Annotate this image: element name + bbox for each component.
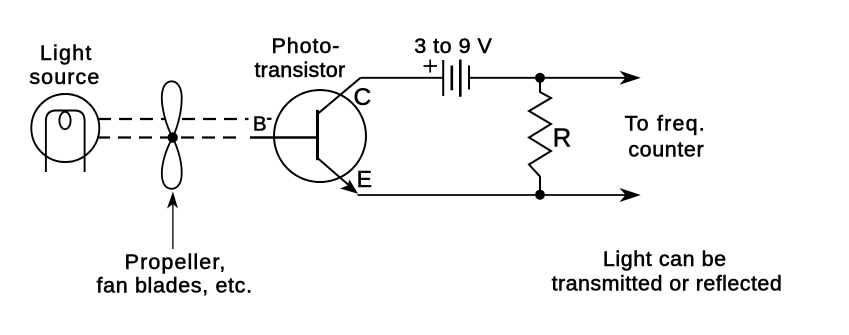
- label "Light can be transmitted or reflected": [552, 247, 783, 296]
- phototransistor Q1 base bar: [316, 110, 319, 160]
- svg-text:B: B: [253, 113, 267, 136]
- svg-text:Photo-: Photo-: [272, 34, 341, 58]
- svg-text:Light can be: Light can be: [603, 247, 727, 271]
- wire collector to battery: [361, 77, 444, 79]
- svg-text:C: C: [353, 84, 371, 111]
- svg-text:To freq.: To freq.: [625, 112, 706, 136]
- svg-text:3 to 9 V: 3 to 9 V: [414, 34, 492, 58]
- svg-text:fan blades, etc.: fan blades, etc.: [96, 274, 252, 298]
- pointer arrowhead to propeller: [167, 192, 178, 209]
- label "Photo-transistor": [254, 34, 345, 82]
- phototransistor Q1 emitter arrowhead: [340, 180, 358, 194]
- lamp DS1 filament loop: [59, 112, 70, 129]
- battery plus sign: [424, 60, 438, 73]
- battery BT1 plate short 1: [450, 66, 453, 91]
- phototransistor Q1 circle: [274, 90, 366, 182]
- output arrowhead top: [620, 71, 641, 85]
- svg-text:E: E: [357, 166, 372, 192]
- output arrowhead bottom: [620, 188, 641, 202]
- phototransistor Q1 base lead wire: [250, 136, 318, 138]
- wire emitter to output: [358, 194, 629, 196]
- light beam upper dashed ray: [98, 118, 249, 120]
- phototransistor Q1 emitter lead: [318, 158, 352, 188]
- svg-text:counter: counter: [628, 138, 704, 162]
- pointer arrow shaft: [172, 203, 174, 249]
- phototransistor Q1 collector lead: [318, 78, 361, 114]
- svg-text:Light: Light: [40, 41, 93, 65]
- battery BT1 plate long 1: [442, 60, 444, 96]
- propeller bottom blade: [162, 138, 182, 189]
- resistor R zigzag: [529, 78, 551, 195]
- svg-text:source: source: [29, 65, 100, 89]
- wire battery to output: [469, 77, 628, 79]
- label "Light source": [29, 41, 100, 89]
- junction node top: [535, 73, 545, 83]
- lamp DS1 bulb outline: [46, 111, 85, 173]
- label "To freq. counter": [625, 112, 706, 162]
- svg-text:transmitted or reflected: transmitted or reflected: [552, 272, 783, 296]
- svg-text:Propeller,: Propeller,: [125, 250, 227, 274]
- light beam upper ray last dash: [267, 118, 272, 120]
- svg-text:R: R: [553, 124, 571, 152]
- light beam lower dashed ray: [97, 136, 244, 138]
- battery BT1 plate short 2: [468, 66, 470, 90]
- junction node bottom: [535, 190, 545, 200]
- propeller hub dot: [168, 132, 178, 142]
- svg-text:transistor: transistor: [254, 58, 345, 82]
- lamp DS1 envelope circle: [31, 94, 99, 162]
- battery BT1 plate long 2: [459, 60, 462, 97]
- propeller top blade: [162, 81, 182, 137]
- label "Propeller, fan blades, etc.": [96, 250, 252, 298]
